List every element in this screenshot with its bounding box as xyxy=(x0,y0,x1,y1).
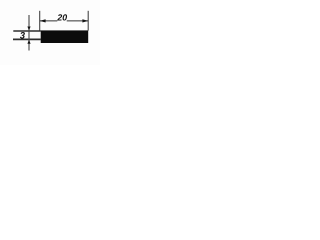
left extension line xyxy=(39,11,41,31)
arrowhead right (points right) xyxy=(82,19,88,22)
arrowhead bottom (points up) xyxy=(27,40,30,44)
dimension text 20 xyxy=(57,14,67,20)
flat bar (black cross-section) xyxy=(41,30,88,43)
arrowhead left (points left) xyxy=(40,19,46,22)
dimension line 20 left segment xyxy=(40,20,57,22)
upper extension line of thickness (bar top extended) xyxy=(13,30,41,32)
background xyxy=(0,0,100,65)
right extension line xyxy=(87,11,89,31)
dimension line 20 right segment xyxy=(67,20,88,22)
lower extension line of thickness xyxy=(13,38,41,40)
vertical dimension line 3 xyxy=(28,15,30,51)
dimension text 3 xyxy=(20,32,25,39)
arrowhead top (points down) xyxy=(27,27,30,31)
